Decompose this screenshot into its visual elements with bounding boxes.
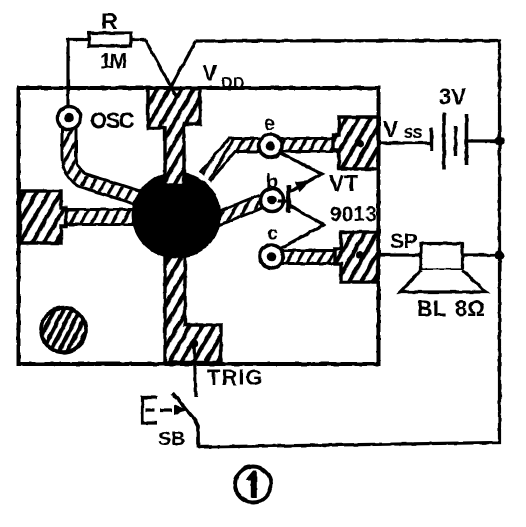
junction dot in TRIG pad bbox=[190, 340, 198, 348]
pad: VDD pad with trace down to blob (hatched) bbox=[148, 88, 200, 185]
svg-text:V: V bbox=[202, 60, 218, 86]
transistor collector wire bbox=[281, 206, 324, 248]
speaker BL body bbox=[421, 244, 463, 271]
wire: Vss pad to battery bbox=[378, 141, 431, 144]
chip blob (COB) bbox=[132, 172, 222, 258]
wire: b trace from blob to b pad bbox=[212, 201, 262, 221]
pad: TRIG trace and pad (L-shape, hatched) bbox=[165, 250, 221, 363]
svg-text:3V: 3V bbox=[439, 84, 466, 109]
svg-text:V: V bbox=[383, 116, 399, 142]
wire: OSC trace (hatched copper from OSC pad to chip blob) bbox=[69, 126, 142, 199]
svg-text:TRIG: TRIG bbox=[207, 365, 264, 390]
svg-text:8Ω: 8Ω bbox=[455, 296, 485, 321]
junction dot battery/right rail bbox=[495, 136, 505, 146]
speaker cone bbox=[400, 270, 486, 292]
wire: left pad trace to blob bbox=[58, 208, 145, 226]
wire: c trace from c pad to SP pad bbox=[268, 249, 343, 265]
wire: TRIG pad down to switch contact bbox=[194, 344, 196, 397]
wire: R right lead diagonal to VDD pad bbox=[131, 40, 176, 97]
svg-text:9013: 9013 bbox=[330, 203, 377, 226]
mounting hole (hatched circle, bottom-left) bbox=[41, 308, 86, 353]
svg-text:R: R bbox=[101, 8, 118, 34]
svg-text:ss: ss bbox=[404, 122, 423, 142]
wire: top rail to right edge, down right side, bottom rail bbox=[196, 41, 500, 448]
pad: c pad bbox=[260, 245, 283, 268]
wire: battery to right rail bbox=[468, 139, 500, 142]
junction dot speaker/right rail bbox=[495, 250, 505, 260]
wire: e trace from blob to Vss pad bbox=[205, 145, 341, 177]
wire: SP pad to speaker bbox=[378, 253, 421, 256]
pad: Vss pad (hatched) bbox=[333, 117, 378, 169]
svg-text:e: e bbox=[264, 113, 275, 135]
svg-text:VT: VT bbox=[329, 170, 358, 196]
battery GB 3V bbox=[432, 113, 467, 169]
svg-text:OSC: OSC bbox=[90, 108, 135, 133]
svg-text:b: b bbox=[266, 171, 278, 193]
PCB board outline bbox=[19, 88, 379, 364]
svg-text:DD: DD bbox=[221, 75, 245, 92]
transistor emitter wire with arrow bbox=[279, 153, 322, 192]
switch SB actuator E with dashed push rod bbox=[143, 398, 158, 424]
junction dot in SP pad bbox=[356, 251, 364, 259]
pad: left edge pad (hatched) bbox=[20, 191, 66, 243]
transistor VT base bar bbox=[286, 186, 291, 213]
wire: speaker to right rail bbox=[463, 253, 500, 256]
switch SB lever bbox=[173, 393, 199, 448]
wire: VDD pad diagonal up to top rail bbox=[166, 41, 196, 96]
svg-text:BL: BL bbox=[417, 296, 446, 321]
pad: b pad bbox=[261, 189, 284, 212]
svg-text:SP: SP bbox=[390, 230, 417, 253]
svg-text:1M: 1M bbox=[100, 50, 127, 73]
resistor R1M body bbox=[89, 33, 131, 46]
pad: e pad bbox=[259, 135, 282, 158]
junction dot in Vss pad bbox=[356, 140, 364, 148]
svg-text:SB: SB bbox=[158, 428, 185, 450]
svg-text:c: c bbox=[267, 223, 278, 245]
pad: SP pad (hatched) bbox=[335, 232, 378, 282]
wire: R left lead down to OSC pad bbox=[68, 40, 89, 109]
figure number (1) bbox=[235, 467, 271, 503]
pad: OSC pad (circle with dot) bbox=[58, 107, 81, 130]
transistor base link to b pad bbox=[278, 199, 288, 202]
